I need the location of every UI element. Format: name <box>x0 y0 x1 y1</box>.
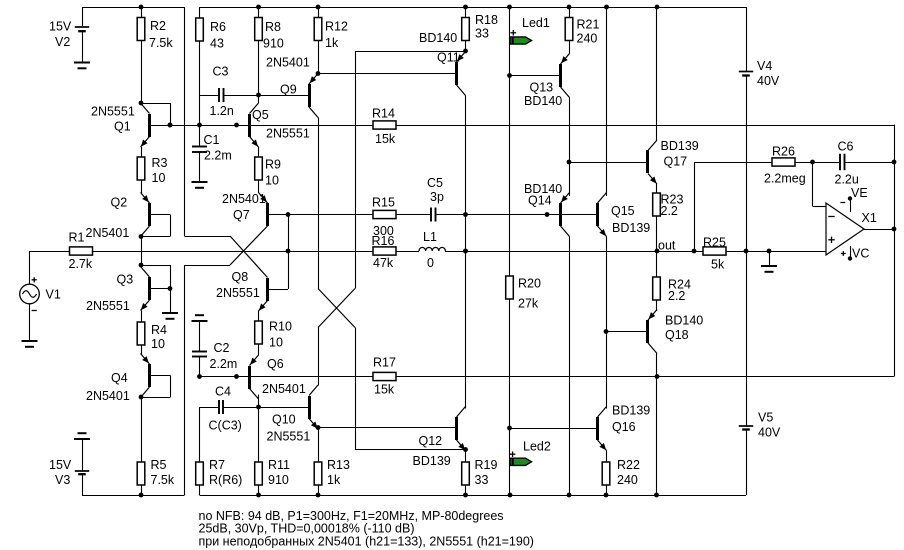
transistor Q17 BD139 <box>646 140 657 184</box>
svg-text:Q1: Q1 <box>114 119 131 133</box>
capacitor C3 1.2n <box>200 88 310 102</box>
svg-text:15V: 15V <box>49 19 72 33</box>
svg-text:2.2m: 2.2m <box>204 148 232 162</box>
wire bottom-left -15V rail <box>82 495 185 497</box>
transistor Q4 2N5401 <box>141 354 152 398</box>
svg-text:V3: V3 <box>55 473 70 487</box>
wire cross diagonal Q11-Q10 <box>318 289 355 328</box>
svg-text:10: 10 <box>269 335 283 349</box>
svg-text:7.5k: 7.5k <box>149 36 173 50</box>
transistor Q2 2N5401 <box>141 193 152 237</box>
wire Q9 collector down to cross <box>318 118 320 289</box>
wire to Q17 base <box>569 162 647 164</box>
ground above V3 <box>74 438 90 440</box>
svg-text:R2: R2 <box>150 19 166 33</box>
svg-text:2N5551: 2N5551 <box>91 104 135 118</box>
resistor R3 10 <box>137 147 145 194</box>
svg-text:R20: R20 <box>518 276 541 290</box>
wire output feedback loop <box>894 125 896 377</box>
svg-text:Q9: Q9 <box>280 82 297 96</box>
svg-text:2.7k: 2.7k <box>69 257 93 271</box>
svg-text:10: 10 <box>152 171 166 185</box>
transistor Q15 BD139 <box>596 193 607 237</box>
source V1 sine <box>20 277 40 310</box>
LED Led2 <box>510 428 532 495</box>
svg-text:Q4: Q4 <box>111 371 128 385</box>
wire Led1 to Q13 base <box>510 75 560 77</box>
op-amp X1 <box>826 196 864 260</box>
svg-text:R16: R16 <box>372 234 395 248</box>
svg-text:910: 910 <box>268 473 289 487</box>
transistor Q14 BD140 <box>559 193 570 237</box>
node C6 right <box>892 160 897 165</box>
svg-text:BD139: BD139 <box>612 403 650 417</box>
svg-text:1.2n: 1.2n <box>210 104 234 118</box>
resistor R24 2.2 <box>653 251 661 311</box>
svg-text:2.2m: 2.2m <box>210 357 238 371</box>
wire cross to Q10 collector <box>318 328 320 386</box>
resistor R6 43 <box>196 7 204 95</box>
svg-text:R17: R17 <box>373 355 396 369</box>
transistor Q9 2N5401 <box>308 74 318 118</box>
wire left return to -15V rail <box>184 265 186 495</box>
node Q2 collector-base <box>139 234 144 239</box>
svg-text:240: 240 <box>617 473 638 487</box>
wire cross diagonal Q9-Q12 <box>318 289 355 328</box>
resistor R12 1k <box>314 7 322 74</box>
resistor R18 33 <box>462 7 470 51</box>
svg-text:out: out <box>658 238 676 252</box>
resistor R25 5k <box>703 247 726 255</box>
ground below V2 <box>74 62 90 64</box>
wire diagonal to Q8 collector <box>230 236 268 278</box>
svg-text:2N5401: 2N5401 <box>86 389 130 403</box>
wire Q10 emitter to Q12 base <box>318 427 456 429</box>
svg-text:Q2: Q2 <box>111 195 128 209</box>
wire V4 to V5 <box>746 76 748 427</box>
svg-text:R7: R7 <box>209 458 225 472</box>
svg-text:7.5k: 7.5k <box>151 473 175 487</box>
wire Q13 collector down <box>569 98 571 197</box>
wire feedback line y=376.5 <box>200 376 374 378</box>
svg-text:2.2: 2.2 <box>668 289 685 303</box>
wire V1 to ground <box>29 304 31 341</box>
wire diagonal to Q7 collector <box>230 226 268 265</box>
transistor Q5 2N5551 <box>248 103 259 147</box>
svg-text:240: 240 <box>577 31 598 45</box>
resistor R19 33 <box>462 450 470 496</box>
svg-text:V2: V2 <box>55 35 70 49</box>
node Q10 emitter <box>316 425 321 430</box>
wire Q12 emitter feed <box>355 449 466 451</box>
wire Q2 base loop <box>150 214 171 216</box>
wire to Q18 base <box>606 331 647 333</box>
wire Q11 collector down <box>465 96 467 409</box>
wire Q9 emitter node to R12 <box>318 74 320 75</box>
svg-text:BD139: BD139 <box>413 454 451 468</box>
svg-text:15k: 15k <box>375 132 396 146</box>
svg-text:Q5: Q5 <box>252 108 269 122</box>
resistor R21 240 <box>565 7 573 54</box>
wire R26 to C6 <box>795 162 840 164</box>
capacitor C4 C(C3) <box>200 400 310 414</box>
wire Q14 collector down to -40V rail <box>569 237 571 496</box>
svg-text:C4: C4 <box>215 384 231 398</box>
svg-text:3p: 3p <box>430 190 444 204</box>
node Q1 collector <box>139 101 144 106</box>
svg-text:BD139: BD139 <box>661 139 699 153</box>
wire rail drop to Q8 collector <box>184 7 186 236</box>
transistor Q1 2N5551 <box>141 103 152 147</box>
svg-text:X1: X1 <box>862 211 877 225</box>
wire Q3 base to ground <box>170 289 172 314</box>
ground at Q3 base <box>162 312 178 314</box>
wire top-left +15V rail <box>82 7 185 9</box>
svg-text:C1: C1 <box>204 133 220 147</box>
svg-text:V4: V4 <box>757 59 772 73</box>
svg-text:R6: R6 <box>210 20 226 34</box>
resistor R2 7.5k <box>137 7 145 103</box>
resistor R4 10 <box>137 311 145 355</box>
wire Q8 base vertical <box>288 215 290 290</box>
svg-text:R(R6): R(R6) <box>209 473 242 487</box>
svg-text:910: 910 <box>263 36 284 50</box>
battery V5 40V <box>739 425 753 427</box>
resistor R10 10 <box>255 311 263 356</box>
node R18-Q11 emitter <box>463 49 468 54</box>
wire base line y=125 (Q1/Q5 to op-amp column) <box>150 125 374 127</box>
svg-text:Q3: Q3 <box>117 272 134 286</box>
node A Q3 collector <box>139 263 144 268</box>
resistor R26 2.2meg <box>772 158 795 166</box>
svg-text:R26: R26 <box>772 144 795 158</box>
capacitor C6 2.2u <box>839 154 841 171</box>
wire Q6 collector to node <box>258 395 260 408</box>
wire rail drop to Q15 collector <box>606 7 608 196</box>
svg-text:2.2u: 2.2u <box>835 172 859 186</box>
node output <box>892 227 897 232</box>
node Q13-Q17 base branch <box>567 160 572 165</box>
svg-text:VE: VE <box>851 186 868 200</box>
svg-text:R9: R9 <box>265 157 281 171</box>
resistor R17 15k <box>373 372 396 380</box>
wire Q9 emitter node to Q11 base <box>318 73 456 75</box>
svg-text:Q14: Q14 <box>528 193 552 207</box>
svg-text:R11: R11 <box>268 458 290 472</box>
resistor R1 2.7k <box>30 247 93 255</box>
svg-text:Q15: Q15 <box>611 204 635 218</box>
wire y=251 L1 to out column <box>445 251 826 253</box>
wire y=251 R16 to L1 <box>395 251 420 253</box>
wire bottom -40V rail <box>200 495 747 497</box>
wire node A branch to Q7 collector <box>185 265 231 267</box>
wire Q8 base <box>268 289 289 291</box>
wire Q17 collector to +40V rail <box>656 7 658 140</box>
svg-text:2.2: 2.2 <box>661 204 678 218</box>
svg-text:40V: 40V <box>758 425 781 439</box>
node Led1-Q13 base <box>507 73 512 78</box>
transistor Q18 BD140 <box>646 310 657 354</box>
svg-text:40V: 40V <box>757 74 780 88</box>
svg-text:R22: R22 <box>617 458 640 472</box>
svg-text:при неподобранных 2N5401 (h21=: при неподобранных 2N5401 (h21=133), 2N55… <box>199 534 534 548</box>
node R26-C6-inv input <box>810 160 815 165</box>
LED Led1 <box>510 7 532 76</box>
svg-text:2N5401: 2N5401 <box>86 226 130 240</box>
node dots on y=376.5 <box>197 374 202 379</box>
transistor Q10 2N5551 <box>308 385 318 429</box>
svg-text:2N5401: 2N5401 <box>266 55 310 69</box>
svg-text:Q8: Q8 <box>232 270 249 284</box>
svg-text:27k: 27k <box>518 296 539 310</box>
transistor Q7 2N5401 <box>259 193 270 227</box>
wire Q3 base loop <box>150 288 171 290</box>
svg-text:C3: C3 <box>213 64 229 78</box>
resistor R11 910 <box>255 407 263 495</box>
svg-text:C5: C5 <box>427 176 443 190</box>
wire C3 column to base line <box>199 95 201 147</box>
note text block <box>199 509 534 549</box>
resistor R22 240 <box>602 451 610 496</box>
svg-text:R8: R8 <box>265 20 281 34</box>
svg-text:BD140: BD140 <box>419 31 457 45</box>
svg-text:C2: C2 <box>214 341 230 355</box>
wire input line y=251 <box>93 251 374 253</box>
resistor R13 1k <box>314 428 322 496</box>
transistor Q8 2N5551 <box>259 278 270 311</box>
node Q4 collector-base <box>139 395 144 400</box>
svg-text:R3: R3 <box>152 156 168 170</box>
node C3-R8 junction <box>256 93 261 98</box>
wire cross to Q12 emitter line <box>355 328 357 450</box>
resistor R8 910 <box>255 7 263 95</box>
svg-text:Q13: Q13 <box>530 80 554 94</box>
resistor R20 27k <box>506 76 514 429</box>
wire Q7 base <box>268 214 289 216</box>
svg-text:2N5401: 2N5401 <box>262 382 306 396</box>
svg-text:R25: R25 <box>703 235 726 249</box>
ground below V1 <box>22 340 38 342</box>
svg-text:R13: R13 <box>327 458 350 472</box>
transistor Q11 BD140 <box>455 52 466 96</box>
transistor Q3 2N5551 <box>141 267 152 311</box>
wire V5 to -40V rail <box>746 430 748 496</box>
ground on out line <box>761 251 777 272</box>
svg-text:1k: 1k <box>327 473 341 487</box>
node Q9 emitter-R12 <box>316 71 321 76</box>
capacitor C1 2.2m <box>192 146 207 148</box>
transistor Q12 BD139 <box>455 407 466 451</box>
resistor R23 2.2 <box>653 184 661 251</box>
transistor Q6 2N5401 <box>248 355 259 399</box>
node bottom rail junction dots <box>139 493 144 498</box>
node Q3 base <box>168 286 173 291</box>
svg-text:R12: R12 <box>325 19 348 33</box>
wire +40V rail to V4 <box>746 7 748 72</box>
wire C4 down to R7 <box>199 407 201 462</box>
resistor R14 15k <box>373 121 396 129</box>
svg-text:2N5401: 2N5401 <box>222 192 266 206</box>
wire op-amp output <box>864 229 894 231</box>
wire Q1 base line <box>150 125 171 127</box>
svg-text:Q16: Q16 <box>612 420 636 434</box>
svg-text:Q11: Q11 <box>437 50 460 64</box>
svg-text:10: 10 <box>265 173 279 187</box>
svg-text:V5: V5 <box>758 410 773 424</box>
svg-text:BD139: BD139 <box>612 221 650 235</box>
wire C6 to output node <box>845 162 895 164</box>
svg-text:R21: R21 <box>577 17 600 31</box>
svg-text:2N5551: 2N5551 <box>86 299 130 313</box>
svg-text:10: 10 <box>151 337 165 351</box>
svg-text:33: 33 <box>475 26 489 40</box>
node Q18 base branch <box>604 329 609 334</box>
node bias dot <box>545 212 550 217</box>
transistor Q16 BD139 <box>596 407 607 451</box>
node top rail junction dots <box>139 5 144 10</box>
svg-text:Q6: Q6 <box>267 357 284 371</box>
wire Led2 node to Q16 base <box>510 428 597 430</box>
wire Q4 base loop <box>150 375 171 377</box>
svg-text:R5: R5 <box>151 458 167 472</box>
wire Q1 collector-base loop <box>141 103 170 105</box>
inductor L1 0 <box>419 247 445 251</box>
ground above C2 <box>192 320 208 322</box>
wire Q18 collector to -40V rail <box>656 354 658 496</box>
wire R26 line <box>694 162 772 164</box>
svg-text:R14: R14 <box>372 106 395 120</box>
svg-text:BD140: BD140 <box>665 313 703 327</box>
resistor R16 47k <box>373 247 396 255</box>
wire top rail +40V <box>200 7 747 9</box>
svg-text:L1: L1 <box>423 230 437 244</box>
svg-text:2N5551: 2N5551 <box>216 286 260 300</box>
node dots on y=125 <box>168 123 173 128</box>
svg-text:2N5551: 2N5551 <box>266 126 310 140</box>
wire R8 to Q5 collector <box>258 95 260 103</box>
capacitor C5 3p <box>431 208 596 222</box>
svg-text:VC: VC <box>852 246 869 260</box>
battery V3 15V <box>75 439 89 495</box>
wire inv input feed <box>812 162 814 206</box>
svg-text:Q17: Q17 <box>664 154 688 168</box>
svg-text:R4: R4 <box>151 323 167 337</box>
svg-text:BD140: BD140 <box>524 94 562 108</box>
battery V2 15V <box>75 7 89 63</box>
svg-text:1k: 1k <box>325 36 339 50</box>
svg-text:R10: R10 <box>269 319 292 333</box>
svg-text:2.2meg: 2.2meg <box>764 171 806 185</box>
transistor Q13 BD140 <box>559 54 570 98</box>
resistor R5 7.5k <box>137 397 145 495</box>
svg-text:0: 0 <box>427 256 434 270</box>
svg-text:15k: 15k <box>374 382 395 396</box>
svg-text:33: 33 <box>475 473 489 487</box>
wire V1 to R1 <box>29 251 31 285</box>
svg-text:5k: 5k <box>711 257 725 271</box>
svg-text:47k: 47k <box>373 256 394 270</box>
svg-text:Q18: Q18 <box>665 328 689 342</box>
resistor R9 10 <box>255 147 263 193</box>
svg-text:C6: C6 <box>838 139 854 153</box>
wire R18 node left arm <box>355 51 466 53</box>
svg-text:2N5551: 2N5551 <box>267 429 311 443</box>
wire Q11 emitter line down to cross <box>355 51 357 289</box>
ground below C1 <box>192 181 208 183</box>
node dots on Q11 collector line <box>463 249 468 254</box>
battery V4 40V <box>739 71 753 73</box>
svg-text:R15: R15 <box>372 195 395 209</box>
svg-text:R18: R18 <box>475 13 498 27</box>
svg-text:Q10: Q10 <box>272 412 296 426</box>
node dots on y=251 <box>286 249 291 254</box>
resistor R15 300 <box>268 210 432 218</box>
svg-text:C(C3): C(C3) <box>209 418 242 432</box>
node C4-Q10 junction <box>256 405 261 410</box>
node Q1 base <box>168 123 173 128</box>
wire R26 feed vertical <box>694 162 696 251</box>
resistor R7 R(R6) <box>196 462 204 485</box>
svg-text:R19: R19 <box>475 458 498 472</box>
svg-text:V1: V1 <box>46 287 61 301</box>
svg-text:Led2: Led2 <box>523 439 551 453</box>
node Q12 emitter <box>463 447 468 452</box>
svg-text:R1: R1 <box>69 230 85 244</box>
node R20-Led2-Q16 base <box>507 426 512 431</box>
svg-text:Q7: Q7 <box>233 208 250 222</box>
svg-text:Led1: Led1 <box>522 16 550 30</box>
svg-text:15V: 15V <box>49 458 72 472</box>
svg-text:43: 43 <box>210 36 224 50</box>
svg-text:Q12: Q12 <box>419 434 443 448</box>
wire C1 to ground <box>199 152 201 182</box>
node C5 out dot <box>463 212 468 217</box>
wire Q2 to node A <box>141 237 143 266</box>
capacitor C2 2.2m <box>192 321 207 377</box>
wire Q15 emitter down / Q16 collector <box>606 237 608 409</box>
